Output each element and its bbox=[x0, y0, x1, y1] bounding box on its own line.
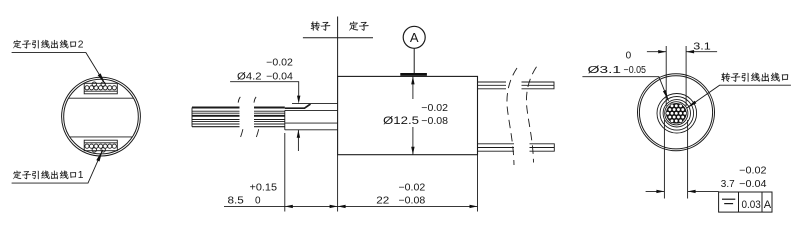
dimension 3.7 bottom bbox=[646, 120, 767, 199]
svg-text:−0.08: −0.08 bbox=[421, 116, 448, 127]
svg-text:−0.02: −0.02 bbox=[399, 183, 426, 194]
wire stator leads right bottom bbox=[478, 144, 555, 151]
node label stator-outlet-2 bbox=[12, 40, 106, 85]
svg-text:−0.02: −0.02 bbox=[421, 103, 448, 114]
svg-text:8.5: 8.5 bbox=[228, 195, 245, 206]
wire break marks on bundle bbox=[238, 97, 259, 137]
wire break curves right bbox=[507, 67, 537, 165]
dimension dia-4.2 bbox=[230, 58, 300, 151]
dimension 3.1 top bbox=[647, 41, 717, 106]
svg-text:A: A bbox=[764, 199, 772, 211]
node label stator-outlet-1 bbox=[12, 150, 103, 183]
svg-text:−0.08: −0.08 bbox=[399, 195, 426, 206]
svg-text:2: 2 bbox=[78, 40, 84, 51]
left view: stator end face bbox=[62, 77, 141, 156]
svg-text:Ø12.5: Ø12.5 bbox=[383, 115, 419, 127]
svg-text:A: A bbox=[410, 30, 419, 45]
wire rotor lead bundle bbox=[192, 108, 285, 127]
dimension 22 bbox=[338, 183, 478, 209]
svg-text:−0.05: −0.05 bbox=[624, 65, 647, 76]
rotor shaft bbox=[285, 104, 338, 130]
wire stator leads right top bbox=[478, 82, 555, 89]
svg-text:0.03: 0.03 bbox=[742, 199, 761, 211]
svg-text:0: 0 bbox=[626, 51, 632, 62]
svg-text:1: 1 bbox=[78, 170, 84, 181]
svg-text:3.7: 3.7 bbox=[721, 179, 735, 190]
datum A flag bbox=[400, 26, 427, 76]
svg-text:3.1: 3.1 bbox=[693, 41, 711, 52]
svg-text:0: 0 bbox=[255, 195, 261, 206]
svg-text:−0.04: −0.04 bbox=[739, 179, 767, 190]
node label rotor-outlet bbox=[687, 73, 791, 109]
rotor wire bundle bbox=[666, 103, 687, 123]
dimension dia-3.1 leader bbox=[582, 51, 668, 101]
node top-outlet-tray bbox=[84, 82, 117, 94]
housing chord lines bbox=[69, 98, 134, 137]
rotor boss rings bbox=[657, 94, 697, 134]
right view: rotor end face bbox=[638, 74, 715, 151]
svg-text:−0.02: −0.02 bbox=[739, 166, 767, 177]
svg-text:22: 22 bbox=[376, 195, 390, 206]
body rect (slip ring housing) bbox=[338, 76, 478, 154]
svg-text:Ø4.2: Ø4.2 bbox=[237, 70, 262, 82]
node bottom-outlet-tray bbox=[84, 140, 117, 152]
dimension 8.5 bbox=[224, 133, 478, 212]
dimension dia-12.5 bbox=[383, 76, 448, 154]
svg-text:Ø3.1: Ø3.1 bbox=[588, 64, 622, 76]
svg-text:+0.15: +0.15 bbox=[250, 183, 278, 194]
feature control frame symmetry 0.03 A bbox=[719, 192, 772, 212]
svg-text:−0.04: −0.04 bbox=[266, 71, 293, 82]
node rotor/stator divider labels bbox=[303, 17, 373, 77]
svg-text:−0.02: −0.02 bbox=[266, 58, 293, 69]
